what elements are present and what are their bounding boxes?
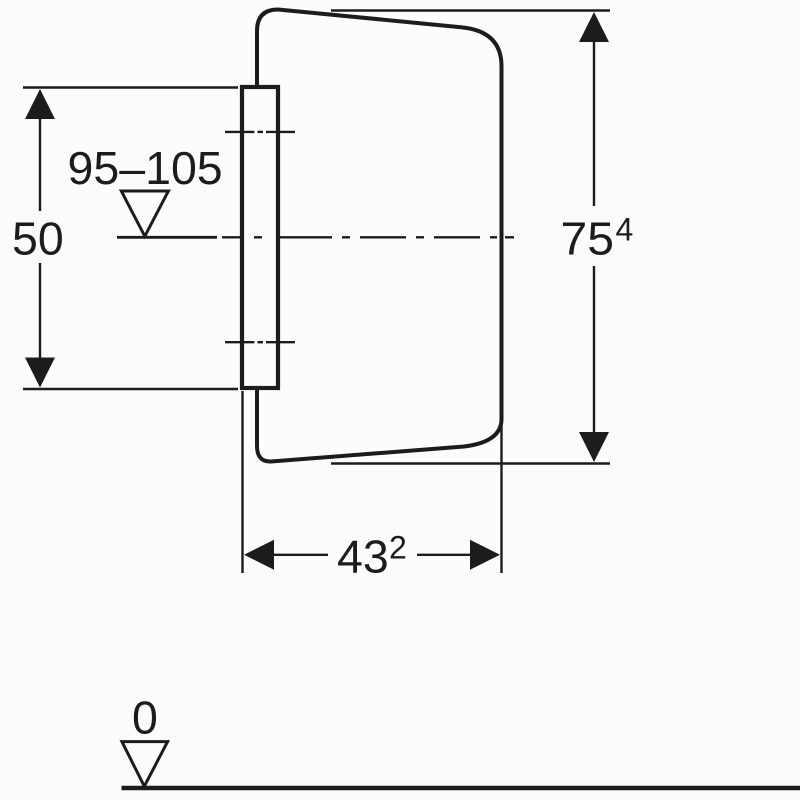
rail upper center line (dash-dot) bbox=[225, 131, 295, 133]
svg-text:75: 75 bbox=[561, 213, 615, 265]
svg-text:4: 4 bbox=[616, 212, 634, 248]
dimension 43: right extension line bbox=[500, 424, 502, 573]
svg-text:43: 43 bbox=[337, 531, 389, 583]
dimension 754: down arrow bbox=[579, 432, 609, 462]
dimension 754: bottom extension line bbox=[331, 462, 610, 464]
svg-text:50: 50 bbox=[12, 213, 64, 265]
svg-text:0: 0 bbox=[132, 692, 158, 744]
svg-text:2: 2 bbox=[389, 530, 407, 566]
dimension 50: down arrow bbox=[25, 358, 55, 388]
floor line bbox=[122, 786, 800, 790]
dimension 50: bottom extension line bbox=[23, 388, 238, 390]
dimension 754: up arrow bbox=[579, 12, 609, 42]
dimension 50: up arrow bbox=[25, 89, 55, 119]
dimension 50: dimension line bbox=[39, 118, 41, 211]
main horizontal center line (dash-dot) bbox=[222, 236, 514, 238]
dimension 43: right arrow bbox=[470, 540, 500, 570]
svg-text:95–105: 95–105 bbox=[68, 142, 223, 194]
dimension 43: left arrow bbox=[244, 540, 274, 570]
dimension 43: dimension line bbox=[272, 554, 328, 556]
dimension 754: top extension line bbox=[331, 9, 610, 11]
level reference line under triangle bbox=[117, 236, 217, 239]
main body outline (side view of appliance) bbox=[257, 10, 502, 462]
mounting rail bbox=[242, 87, 278, 388]
floor level triangle bbox=[122, 742, 168, 787]
rail lower center line (dash-dot) bbox=[225, 341, 295, 343]
dimension 50: top extension line bbox=[23, 86, 238, 88]
dimension 754: dimension line bbox=[593, 40, 595, 206]
dimension 43: left extension line bbox=[241, 391, 243, 573]
level marker triangle 95-105 bbox=[121, 191, 168, 236]
